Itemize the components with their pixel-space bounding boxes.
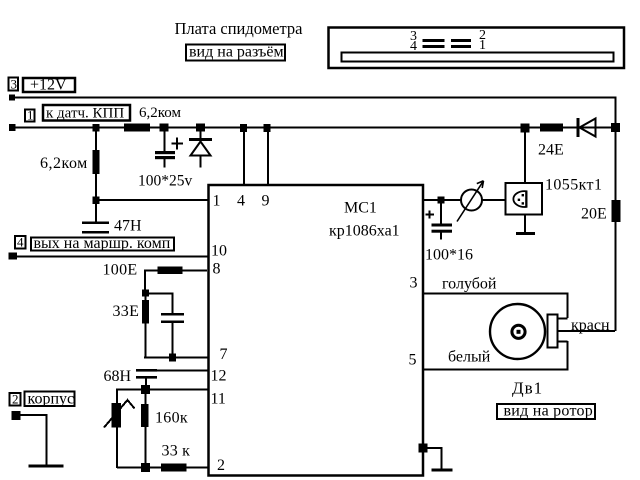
- svg-text:160к: 160к: [155, 410, 188, 427]
- svg-text:+12V: +12V: [30, 77, 67, 94]
- svg-text:100E: 100E: [103, 262, 138, 279]
- svg-text:68H: 68H: [104, 368, 132, 385]
- svg-text:1: 1: [27, 108, 34, 123]
- svg-text:5: 5: [409, 352, 417, 369]
- svg-text:6,2ком: 6,2ком: [40, 155, 88, 172]
- svg-text:8: 8: [213, 261, 221, 278]
- svg-text:1: 1: [213, 193, 221, 210]
- svg-text:кр1086ха1: кр1086ха1: [329, 223, 400, 240]
- svg-text:Дв1: Дв1: [512, 379, 543, 398]
- svg-text:MC1: MC1: [344, 200, 377, 217]
- svg-text:47H: 47H: [114, 218, 142, 235]
- svg-text:вых на маршр. комп: вых на маршр. комп: [34, 235, 171, 252]
- svg-text:24E: 24E: [538, 142, 564, 159]
- svg-text:к датч. КПП: к датч. КПП: [46, 106, 124, 122]
- svg-text:7: 7: [220, 346, 228, 363]
- svg-text:4: 4: [237, 193, 245, 210]
- svg-text:3: 3: [410, 275, 418, 292]
- svg-text:1055кт1: 1055кт1: [545, 177, 602, 194]
- svg-text:100*25v: 100*25v: [138, 173, 193, 190]
- svg-text:4: 4: [17, 235, 24, 250]
- svg-text:2: 2: [12, 392, 19, 407]
- svg-text:20E: 20E: [581, 206, 607, 223]
- svg-text:10: 10: [211, 243, 227, 260]
- svg-text:11: 11: [211, 391, 226, 408]
- svg-text:1: 1: [479, 38, 486, 53]
- svg-text:3: 3: [11, 77, 18, 92]
- svg-text:12: 12: [211, 368, 227, 385]
- svg-text:2: 2: [217, 457, 225, 474]
- svg-text:вид на разъём: вид на разъём: [189, 44, 284, 61]
- svg-text:корпус: корпус: [28, 391, 75, 408]
- svg-text:33 к: 33 к: [162, 443, 191, 460]
- svg-text:белый: белый: [448, 349, 491, 366]
- svg-text:голубой: голубой: [442, 276, 497, 293]
- svg-text:Плата спидометра: Плата спидометра: [175, 19, 304, 38]
- svg-text:9: 9: [262, 193, 270, 210]
- svg-text:красн: красн: [571, 317, 610, 334]
- svg-text:33E: 33E: [113, 303, 140, 320]
- svg-text:6,2ком: 6,2ком: [139, 105, 181, 121]
- svg-text:100*16: 100*16: [425, 247, 473, 264]
- svg-text:вид на ротор: вид на ротор: [504, 403, 594, 420]
- svg-text:4: 4: [410, 39, 417, 54]
